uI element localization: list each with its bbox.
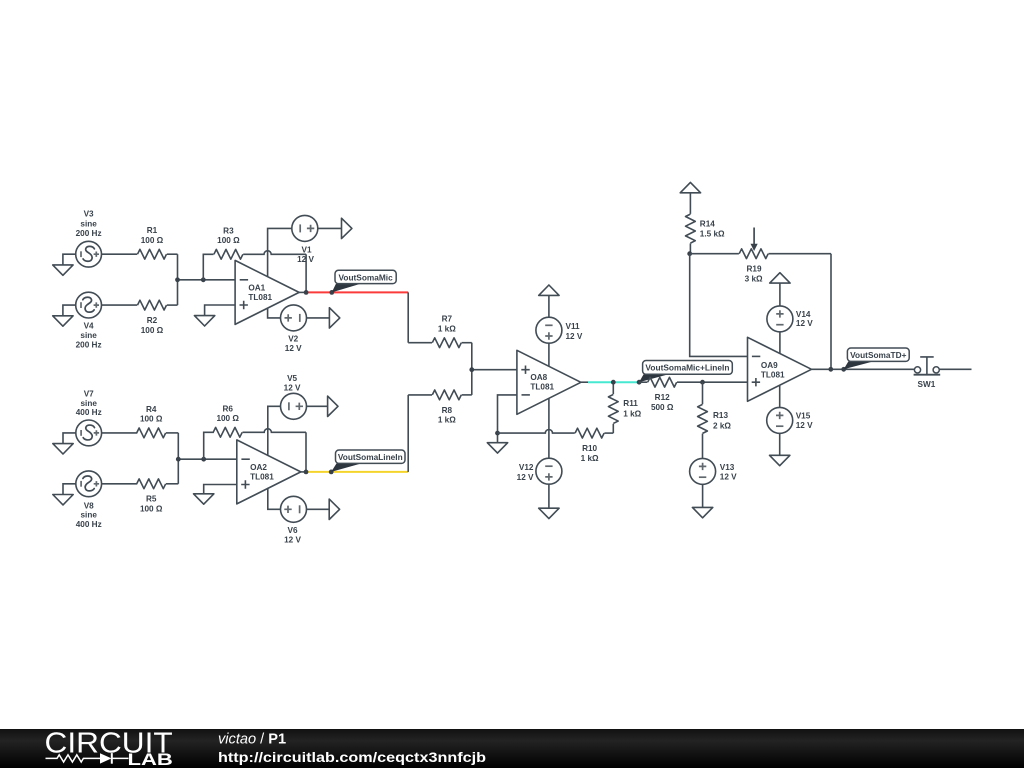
resistor R14 1.5 kOhm	[686, 214, 726, 254]
resistor R7 1 kOhm	[408, 315, 472, 348]
wire R14 junction down to OA9 inverting input	[690, 254, 748, 357]
voltage source V13 12 V	[690, 458, 738, 507]
ground for V5 (rotated)	[328, 396, 338, 416]
resistor R12 500 Ohm	[639, 377, 702, 412]
node A2 (R3 tap)	[201, 277, 206, 282]
ground for V3	[53, 254, 76, 275]
resistor R5 100 Ohm	[102, 479, 179, 514]
wire OA8 output	[581, 381, 588, 383]
net flag VoutSomaLineIn	[331, 450, 405, 472]
op-amp OA9 TL081	[748, 337, 812, 401]
op-amp OA2 TL081	[237, 440, 301, 504]
node R14/R19 junction	[687, 251, 692, 256]
voltage source V6 12 V (negative supply)	[268, 488, 329, 545]
wire yellow output up to R8	[407, 395, 409, 472]
ground for V8	[53, 484, 76, 505]
voltage source V3 (sine 200 Hz)	[76, 210, 102, 267]
wire to OA2 inverting input	[178, 433, 237, 484]
resistor R11 1 kOhm	[608, 382, 641, 433]
wire to OA1 inverting input	[178, 254, 236, 305]
voltage source V14 12 V	[767, 283, 813, 353]
wire VoutSomaMic (red)	[306, 291, 408, 293]
svg-text:LAB: LAB	[128, 751, 173, 768]
node OA2 output	[304, 470, 309, 475]
bottom bar	[0, 729, 1024, 768]
node VoutSomaMic tap	[329, 290, 334, 295]
resistor R8 1 kOhm	[408, 390, 472, 425]
resistor R1 100 Ohm	[102, 226, 178, 259]
wire to OA8 non-inverting input	[472, 343, 517, 395]
svg-text:victao / P1: victao / P1	[218, 732, 286, 748]
node B2 (R6 tap)	[201, 457, 206, 462]
op-amp OA8 TL081	[517, 350, 581, 414]
power arrow above V14	[770, 273, 790, 283]
node R19 feedback tap	[828, 367, 833, 372]
voltage source V2 12 V (negative supply)	[268, 305, 330, 353]
ground at OA8 inverting branch	[487, 443, 507, 453]
svg-text:http://circuitlab.com/ceqctx3n: http://circuitlab.com/ceqctx3nnfcjb	[218, 750, 486, 766]
ground for V4	[53, 305, 76, 326]
CircuitLab logo diode	[100, 753, 112, 763]
wire red output down to R7	[407, 292, 409, 342]
net flag VoutSomaMic+LineIn	[639, 361, 732, 383]
voltage source V15 12 V	[767, 385, 813, 455]
power arrow above R14	[680, 182, 700, 214]
wire to OA9 non-inverting input	[703, 381, 748, 383]
ground for V1 (rotated)	[342, 218, 352, 238]
ground for V7	[53, 433, 76, 454]
voltage source V11 12 V (top supply)	[536, 295, 583, 366]
wire OA1 output	[299, 291, 307, 293]
ground for V6 (rotated)	[329, 499, 339, 519]
resistor R4 100 Ohm	[102, 405, 179, 438]
ground for V13	[692, 507, 712, 517]
ground for V15	[770, 455, 790, 465]
wire VoutSomaMic+LineIn (cyan)	[588, 381, 639, 383]
ground for V12	[539, 508, 559, 518]
node OA1 output	[304, 290, 309, 295]
resistor R10 1 kOhm	[498, 428, 614, 463]
voltage source V4 (sine 200 Hz)	[76, 292, 102, 349]
voltage source V12 12 V (bottom supply)	[517, 398, 562, 508]
node A1 (R1/R2 junction)	[175, 277, 180, 282]
voltage source V1 12 V (positive supply)	[268, 215, 342, 276]
net flag VoutSomaMic	[332, 270, 396, 292]
node VoutSomaTD+ tap	[841, 367, 846, 372]
power arrow above V11	[539, 285, 559, 295]
potentiometer R19 3 kOhm	[690, 228, 831, 284]
wire R19 feedback down to output	[830, 254, 832, 370]
wire OA9 output to SW1	[812, 368, 915, 370]
net flag VoutSomaTD+	[844, 348, 910, 369]
ground at OA2 non-inverting input	[194, 485, 237, 505]
resistor R2 100 Ohm	[102, 300, 178, 335]
node R11 tap	[611, 380, 616, 385]
voltage source V8 (sine 400 Hz)	[76, 471, 102, 529]
node VoutSomaMic+LineIn tap	[637, 380, 642, 385]
pushbutton switch SW1	[914, 357, 941, 389]
resistor R13 2 kOhm	[698, 382, 732, 459]
wire OA8 inverting input to ground/R10	[498, 395, 517, 443]
voltage source V7 (sine 400 Hz)	[76, 390, 102, 446]
wire VoutSomaLineIn (yellow)	[306, 471, 408, 473]
ground at OA1 non-inverting input	[194, 305, 235, 326]
op-amp OA1 TL081	[235, 260, 299, 324]
node B1 (R4/R5 junction)	[176, 457, 181, 462]
wire SW1 output	[939, 368, 971, 370]
node R7/R8 junction	[469, 367, 474, 372]
node R10 junction	[495, 431, 500, 436]
voltage source V5 12 V (positive supply)	[268, 374, 328, 455]
node R13 tap	[700, 380, 705, 385]
resistor R3 100 Ohm (feedback)	[203, 226, 306, 292]
wire OA2 output	[300, 471, 306, 473]
resistor R6 100 Ohm (feedback)	[204, 404, 306, 472]
ground for V2 (rotated)	[329, 308, 339, 328]
CircuitLab logo resistor squiggle	[46, 755, 101, 762]
node VoutSomaLineIn tap	[329, 470, 334, 475]
